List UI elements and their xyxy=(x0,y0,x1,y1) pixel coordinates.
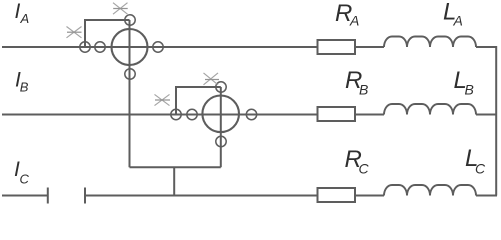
wattmeter W2 terminal left inner xyxy=(187,109,197,119)
wattmeter W1 terminal right xyxy=(153,42,163,52)
wire phase B line mid xyxy=(356,114,384,116)
wattmeter W1 body xyxy=(112,29,148,65)
wire phase B line left xyxy=(2,114,317,116)
svg-text:A: A xyxy=(20,11,30,26)
wire W1 vertical through meter down xyxy=(129,20,131,167)
wire W2 voltage elbow xyxy=(176,87,221,115)
wattmeter W1 terminal bottom xyxy=(125,69,135,79)
terminal bar right on phase C xyxy=(84,188,86,204)
polarity mark W1 voltage xyxy=(113,3,128,15)
wire phase A line mid xyxy=(356,46,384,48)
resistor RB xyxy=(318,107,356,121)
terminal bar left on phase C xyxy=(47,188,49,204)
wire phase A line left xyxy=(2,46,317,48)
svg-text:A: A xyxy=(453,13,463,29)
svg-text:B: B xyxy=(20,80,29,95)
svg-text:C: C xyxy=(359,161,370,177)
wire phase B line right xyxy=(476,114,497,116)
wattmeter W2 body xyxy=(202,96,239,133)
polarity mark W2 voltage xyxy=(204,73,220,85)
wattmeter W2 terminal right xyxy=(246,109,256,119)
wire right bus (star point) xyxy=(495,46,497,196)
wattmeter W2 terminal bottom xyxy=(216,136,226,146)
wattmeter W1 terminal left outer xyxy=(80,42,90,52)
wattmeter W1 terminal left inner xyxy=(95,42,105,52)
wattmeter W1 terminal top xyxy=(125,15,135,25)
wire bottom join horizontal xyxy=(130,166,221,168)
svg-text:B: B xyxy=(359,82,368,98)
wattmeter W2 terminal top xyxy=(216,82,226,92)
inductor LC xyxy=(384,185,476,196)
polarity mark W2 current xyxy=(155,94,171,105)
wire phase C line mid xyxy=(85,195,317,197)
polarity mark W1 current xyxy=(67,27,82,38)
svg-text:B: B xyxy=(465,82,474,98)
inductor LA xyxy=(384,37,476,48)
wire phase C line right xyxy=(476,195,497,197)
inductor LB xyxy=(384,104,476,115)
wire phase A line right xyxy=(476,46,497,48)
wire phase C line mid2 xyxy=(356,195,384,197)
wire W1 voltage elbow xyxy=(85,20,130,47)
svg-text:C: C xyxy=(20,172,30,187)
wire tap to phase C xyxy=(173,167,175,195)
resistor RC xyxy=(318,188,356,202)
svg-text:A: A xyxy=(349,13,359,29)
wattmeter W2 terminal left outer xyxy=(171,109,181,119)
svg-text:C: C xyxy=(475,161,486,177)
wire W2 vertical through meter down xyxy=(220,87,222,167)
wire phase C line left xyxy=(2,195,48,197)
resistor RA xyxy=(318,40,356,54)
